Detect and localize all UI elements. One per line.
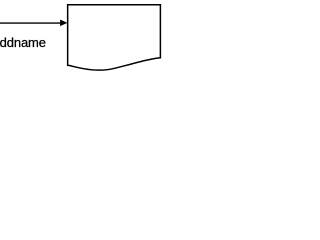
- node label ddname: [0, 35, 46, 50]
- arrowhead: [60, 20, 66, 26]
- document shape: [68, 5, 161, 70]
- wire arrow shaft: [0, 22, 60, 24]
